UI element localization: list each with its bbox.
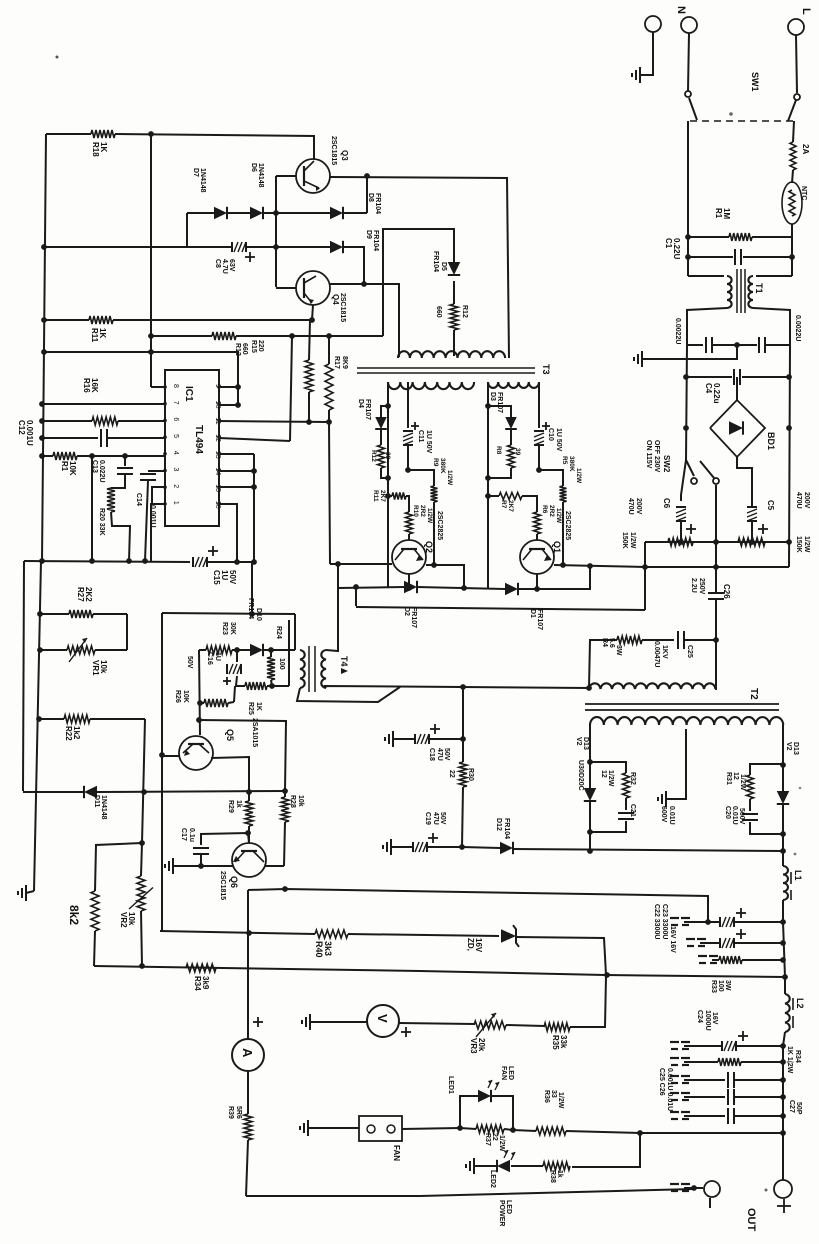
wire bbox=[199, 720, 286, 791]
wire pin14 bbox=[219, 470, 254, 472]
svg-text:8: 8 bbox=[172, 384, 179, 388]
node bbox=[780, 1043, 786, 1049]
svg-text:8K9: 8K9 bbox=[341, 356, 348, 369]
svg-text:0.01U: 0.01U bbox=[668, 806, 675, 825]
svg-text:1K: 1K bbox=[99, 142, 108, 152]
node bbox=[249, 611, 255, 617]
node bbox=[361, 281, 367, 287]
svg-text:T3: T3 bbox=[541, 364, 551, 375]
svg-text:1/2W: 1/2W bbox=[498, 1135, 505, 1152]
thermistor NTC bbox=[782, 182, 807, 224]
transistor Q2 bbox=[392, 511, 443, 574]
svg-text:C27: C27 bbox=[788, 1100, 795, 1113]
svg-text:0.1u: 0.1u bbox=[188, 828, 195, 842]
wire bbox=[518, 566, 590, 589]
capacitor C4 bbox=[686, 369, 789, 404]
node bbox=[780, 957, 788, 980]
svg-text:470U: 470U bbox=[795, 492, 802, 509]
resistor R20 bbox=[98, 488, 130, 561]
svg-text:39: 39 bbox=[514, 448, 521, 456]
svg-text:R1: R1 bbox=[60, 461, 69, 472]
resistor R6 bbox=[534, 505, 563, 540]
wire bbox=[756, 275, 792, 277]
svg-text:POWER: POWER bbox=[498, 1200, 505, 1226]
wire rail A bbox=[23, 561, 24, 791]
wire left rail bbox=[42, 134, 46, 561]
svg-text:2SC2825: 2SC2825 bbox=[564, 511, 571, 540]
svg-text:2K7: 2K7 bbox=[379, 490, 386, 502]
node bbox=[485, 403, 491, 499]
diode D9 bbox=[330, 230, 379, 253]
svg-text:TL494: TL494 bbox=[193, 425, 204, 454]
zener ZD bbox=[466, 925, 519, 953]
resistor R25 bbox=[245, 682, 267, 715]
led LED1 bbox=[447, 1066, 514, 1130]
svg-text:5.6: 5.6 bbox=[608, 638, 615, 648]
svg-text:1M: 1M bbox=[722, 208, 731, 219]
svg-text:D10: D10 bbox=[255, 608, 262, 621]
svg-text:L2: L2 bbox=[795, 998, 805, 1009]
wire bbox=[387, 382, 389, 588]
svg-text:150K: 150K bbox=[795, 536, 802, 553]
capacitor C24 bbox=[670, 1010, 783, 1051]
wire A branch bbox=[247, 890, 249, 1039]
wire bus bbox=[645, 541, 789, 543]
svg-text:2SC1815: 2SC1815 bbox=[219, 871, 226, 900]
capacitor C6 bbox=[662, 460, 696, 542]
svg-text:R34: R34 bbox=[794, 1050, 801, 1063]
terminal L bbox=[788, 8, 812, 35]
svg-text:22: 22 bbox=[491, 1133, 498, 1141]
svg-text:30K: 30K bbox=[229, 622, 236, 635]
svg-text:2: 2 bbox=[172, 484, 179, 488]
svg-text:R12: R12 bbox=[461, 305, 468, 318]
svg-text:R18: R18 bbox=[91, 142, 100, 157]
svg-text:N: N bbox=[675, 6, 687, 14]
wire T2 tap bbox=[666, 729, 686, 799]
capacitor C5 bbox=[747, 500, 775, 542]
svg-text:33: 33 bbox=[550, 1090, 557, 1098]
svg-text:R27: R27 bbox=[76, 587, 85, 602]
svg-text:FAN: FAN bbox=[500, 1066, 507, 1080]
svg-text:1N4148: 1N4148 bbox=[257, 163, 264, 188]
svg-text:C15: C15 bbox=[212, 570, 221, 585]
svg-text:FR104: FR104 bbox=[372, 230, 379, 251]
svg-text:2SC1815: 2SC1815 bbox=[339, 293, 346, 322]
svg-text:ON 115V: ON 115V bbox=[645, 440, 652, 469]
wire bbox=[150, 134, 152, 387]
bridge rectifier BD1 bbox=[710, 400, 776, 457]
resistor R7 bbox=[488, 493, 537, 513]
svg-text:FR107: FR107 bbox=[496, 392, 503, 413]
svg-text:C17: C17 bbox=[180, 828, 187, 841]
wire Q3 emitter bbox=[330, 177, 509, 358]
wire bbox=[783, 922, 785, 977]
svg-text:FR104: FR104 bbox=[374, 193, 381, 214]
svg-text:D11: D11 bbox=[93, 795, 100, 808]
wire pin16 bbox=[219, 504, 237, 562]
node bbox=[587, 829, 593, 835]
svg-text:C13: C13 bbox=[91, 460, 98, 473]
capacitor C16 bbox=[186, 650, 241, 686]
svg-text:1U 50V: 1U 50V bbox=[555, 428, 562, 452]
svg-text:R32: R32 bbox=[629, 772, 636, 785]
svg-text:1N4148: 1N4148 bbox=[100, 795, 107, 820]
svg-text:LED: LED bbox=[507, 1066, 514, 1080]
svg-text:2A: 2A bbox=[801, 144, 810, 154]
svg-text:1/2W: 1/2W bbox=[629, 532, 636, 549]
svg-text:FR107: FR107 bbox=[364, 399, 371, 420]
transformer T4 winding b bbox=[321, 650, 326, 688]
capacitor C22 bbox=[653, 904, 783, 953]
wire Q6 collector bbox=[265, 865, 284, 867]
wire bbox=[383, 229, 454, 336]
svg-text:380K: 380K bbox=[439, 458, 446, 474]
wire bbox=[737, 457, 752, 500]
capacitor C18 bbox=[385, 724, 463, 761]
svg-text:L1: L1 bbox=[793, 870, 803, 881]
svg-text:63V: 63V bbox=[228, 259, 235, 272]
svg-text:IC1: IC1 bbox=[183, 386, 194, 402]
switch SW1 pole N bbox=[685, 91, 697, 120]
svg-text:LED1: LED1 bbox=[447, 1076, 454, 1094]
wire bbox=[113, 319, 312, 321]
wire pin12 bbox=[219, 438, 290, 441]
svg-text:R12: R12 bbox=[370, 450, 377, 462]
svg-text:1U 50V: 1U 50V bbox=[425, 430, 432, 454]
node bbox=[245, 830, 251, 836]
label plus bbox=[253, 1017, 263, 1027]
svg-text:R7: R7 bbox=[500, 500, 507, 509]
transformer T1 winding a bbox=[727, 276, 732, 308]
svg-text:OFF 230V: OFF 230V bbox=[653, 440, 660, 473]
wire midpoint bbox=[337, 564, 339, 588]
wire cathode rail bbox=[462, 847, 500, 848]
svg-text:100: 100 bbox=[717, 980, 724, 992]
switch SW1 pole L bbox=[750, 72, 800, 121]
wire pin15 bbox=[219, 486, 254, 488]
wire bbox=[329, 422, 330, 564]
svg-text:0.0047U: 0.0047U bbox=[653, 641, 660, 667]
capacitor C26b bbox=[670, 1089, 783, 1105]
resistor R39 bbox=[227, 1071, 252, 1196]
terminal OUT+ bbox=[745, 1133, 792, 1232]
svg-text:10k: 10k bbox=[127, 912, 136, 926]
wire rail B bbox=[34, 561, 41, 891]
svg-text:R26: R26 bbox=[174, 690, 181, 703]
diode D6 bbox=[250, 163, 264, 219]
svg-text:1K: 1K bbox=[98, 328, 107, 338]
svg-text:R35: R35 bbox=[551, 1035, 560, 1050]
wire bbox=[688, 33, 689, 91]
svg-text:FR104: FR104 bbox=[432, 251, 439, 272]
wire bbox=[186, 213, 188, 247]
svg-text:R20 33K: R20 33K bbox=[98, 508, 105, 536]
transformer T4 core bbox=[309, 646, 349, 692]
wire bbox=[487, 382, 489, 588]
svg-text:VR2: VR2 bbox=[119, 912, 128, 928]
node bbox=[678, 539, 792, 545]
svg-text:2.2U: 2.2U bbox=[690, 578, 697, 593]
svg-text:R30: R30 bbox=[467, 768, 474, 781]
wire pin13 bbox=[219, 453, 254, 455]
svg-text:Q2: Q2 bbox=[424, 541, 434, 553]
svg-text:8k2: 8k2 bbox=[67, 905, 81, 925]
ground bbox=[658, 791, 675, 825]
wire bus bbox=[645, 566, 789, 568]
node bbox=[39, 558, 148, 564]
svg-text:V2: V2 bbox=[785, 742, 792, 751]
resistor R34b bbox=[670, 1046, 801, 1074]
svg-text:2R2: 2R2 bbox=[419, 505, 426, 517]
svg-text:BD1: BD1 bbox=[766, 432, 776, 450]
transformer T4 winding a bbox=[300, 650, 305, 688]
svg-text:R38: R38 bbox=[549, 1170, 556, 1183]
meter A bbox=[232, 1039, 264, 1071]
resistor R34a bbox=[186, 964, 216, 991]
svg-text:R10: R10 bbox=[412, 505, 419, 517]
svg-text:1/2W: 1/2W bbox=[557, 1092, 564, 1109]
svg-text:10K: 10K bbox=[182, 690, 189, 703]
diode D5 bbox=[432, 251, 460, 275]
wire C15 row bbox=[24, 561, 190, 562]
svg-text:150K: 150K bbox=[621, 532, 628, 549]
svg-text:R11: R11 bbox=[372, 490, 379, 502]
svg-text:12: 12 bbox=[732, 772, 739, 780]
svg-text:0.0022U: 0.0022U bbox=[794, 315, 801, 341]
wire bbox=[199, 650, 200, 735]
svg-text:C10: C10 bbox=[547, 428, 554, 441]
wire pin1 bbox=[151, 504, 165, 562]
svg-text:D9: D9 bbox=[365, 230, 372, 239]
svg-text:C6: C6 bbox=[662, 498, 671, 509]
node bbox=[534, 586, 540, 592]
svg-text:C12: C12 bbox=[17, 420, 26, 435]
wire Q4 base bbox=[276, 287, 296, 289]
resistor R27 bbox=[40, 587, 127, 618]
resistor R8 bbox=[495, 445, 521, 468]
resistor R36 bbox=[513, 1090, 640, 1135]
svg-text:Q4: Q4 bbox=[331, 294, 340, 305]
ground bbox=[165, 858, 173, 874]
svg-text:FR107: FR107 bbox=[410, 607, 417, 628]
node bbox=[587, 759, 786, 768]
wire to earth bbox=[642, 345, 737, 359]
resistor R16 bbox=[42, 378, 165, 425]
node bbox=[780, 1113, 786, 1136]
resistor R15 bbox=[250, 320, 313, 422]
svg-text:5: 5 bbox=[172, 434, 179, 438]
wire bottom return bbox=[246, 1189, 694, 1196]
svg-text:NTC: NTC bbox=[800, 186, 807, 200]
svg-text:C18: C18 bbox=[428, 748, 435, 761]
capacitor C11 bbox=[403, 382, 432, 470]
svg-text:D12: D12 bbox=[495, 818, 502, 831]
wire bbox=[325, 686, 589, 688]
node bbox=[198, 863, 204, 869]
wire bbox=[288, 620, 290, 686]
capacitor C2 bbox=[674, 318, 736, 353]
transformer T2 core bbox=[585, 688, 779, 710]
capacitor C25b bbox=[658, 1068, 783, 1111]
node bbox=[246, 788, 288, 795]
node bbox=[148, 333, 332, 339]
wire Q6 base bbox=[201, 833, 249, 845]
wire bbox=[782, 1046, 784, 1133]
ground bbox=[18, 885, 34, 901]
wire bbox=[142, 719, 145, 843]
wire Q2 right bbox=[426, 565, 464, 588]
svg-text:50P: 50P bbox=[795, 1102, 802, 1115]
wire N down bbox=[687, 121, 689, 276]
wire Q4 collector bbox=[330, 284, 399, 357]
snubber R31 C20 bbox=[724, 764, 783, 834]
potentiometer VR2 bbox=[119, 843, 153, 966]
wire Q1 right bbox=[554, 565, 645, 567]
svg-text:1/2W: 1/2W bbox=[446, 470, 453, 486]
capacitor C12 bbox=[17, 420, 165, 447]
node bbox=[604, 972, 610, 978]
svg-text:D5: D5 bbox=[440, 262, 447, 271]
svg-text:L: L bbox=[800, 8, 812, 15]
diode D10 bbox=[247, 598, 263, 656]
terminal OUT- bbox=[670, 1181, 720, 1208]
resistor R29 bbox=[227, 792, 253, 843]
wire Q3 base bbox=[276, 175, 296, 177]
svg-text:100: 100 bbox=[278, 658, 285, 670]
svg-text:R16: R16 bbox=[82, 378, 91, 393]
svg-text:C11: C11 bbox=[417, 430, 424, 443]
node bbox=[587, 563, 593, 569]
svg-text:660: 660 bbox=[241, 343, 248, 355]
wire bbox=[97, 791, 285, 792]
svg-text:D2: D2 bbox=[403, 607, 410, 616]
capacitor C19 bbox=[383, 812, 462, 855]
capacitor C3 bbox=[738, 315, 801, 353]
transistor Q6 bbox=[219, 843, 266, 900]
resistor R24 bbox=[267, 626, 285, 686]
svg-text:R40: R40 bbox=[314, 941, 324, 958]
svg-text:Q1: Q1 bbox=[552, 541, 562, 553]
svg-text:0.001U: 0.001U bbox=[25, 420, 34, 446]
wire rail T4 top bbox=[162, 613, 295, 614]
svg-text:D13: D13 bbox=[582, 737, 589, 750]
wire bbox=[791, 224, 793, 237]
wire bbox=[246, 246, 330, 248]
node bbox=[335, 561, 359, 590]
svg-text:1/2W: 1/2W bbox=[555, 508, 562, 524]
transformer T1 core bbox=[737, 269, 764, 313]
svg-text:16V: 16V bbox=[474, 938, 483, 953]
wire C8 row bbox=[44, 246, 232, 248]
svg-text:1K: 1K bbox=[255, 702, 262, 711]
wire pin2 bbox=[152, 487, 165, 505]
svg-text:C26: C26 bbox=[722, 584, 731, 599]
transformer T2 secondary bbox=[590, 717, 783, 725]
wire bbox=[326, 564, 338, 651]
svg-text:LED: LED bbox=[505, 1200, 512, 1214]
wire bbox=[251, 562, 253, 614]
node bbox=[159, 752, 165, 758]
wire bottom sense bus bbox=[94, 966, 785, 977]
resistor R1 bbox=[688, 208, 792, 241]
resistor R22 bbox=[39, 715, 145, 741]
svg-text:C14: C14 bbox=[135, 493, 142, 506]
diode D13b bbox=[777, 742, 799, 851]
svg-text:1/2W: 1/2W bbox=[575, 468, 582, 484]
svg-text:0.22u: 0.22u bbox=[712, 383, 721, 404]
svg-text:20k: 20k bbox=[477, 1038, 486, 1052]
svg-text:C8: C8 bbox=[214, 259, 221, 268]
svg-text:OUT: OUT bbox=[745, 1208, 757, 1232]
svg-text:D3: D3 bbox=[489, 392, 496, 401]
resistor R9 bbox=[408, 458, 453, 565]
resistor R40 bbox=[160, 930, 499, 958]
node bbox=[273, 210, 279, 250]
wire Q2 emitter bbox=[408, 574, 410, 588]
node bbox=[251, 468, 257, 490]
wire left vert bbox=[161, 613, 163, 931]
node bbox=[385, 403, 391, 499]
resistor R17 bbox=[325, 336, 348, 422]
node bbox=[780, 919, 786, 925]
svg-text:R5: R5 bbox=[561, 456, 568, 465]
fan connector bbox=[300, 1116, 402, 1161]
node bbox=[683, 374, 792, 431]
node bbox=[637, 1130, 643, 1136]
wire bbox=[715, 640, 717, 690]
svg-text:16V: 16V bbox=[711, 1012, 718, 1025]
wire Q4 emitter bbox=[312, 305, 313, 320]
wire bbox=[402, 1128, 460, 1129]
svg-text:12: 12 bbox=[600, 770, 607, 778]
wire bbox=[488, 406, 511, 417]
svg-text:220: 220 bbox=[257, 340, 264, 352]
svg-text:C16: C16 bbox=[206, 652, 213, 665]
resistor R2 bbox=[738, 536, 810, 553]
wire bbox=[510, 429, 512, 445]
node bbox=[587, 831, 786, 854]
wire Q5 collector bbox=[211, 757, 249, 792]
node bbox=[734, 342, 740, 348]
svg-text:FR107: FR107 bbox=[536, 609, 543, 630]
svg-text:T1: T1 bbox=[754, 283, 764, 294]
svg-text:1: 1 bbox=[172, 501, 179, 505]
resistor R23 bbox=[206, 622, 236, 654]
capacitor C17 bbox=[180, 828, 209, 866]
wire bbox=[644, 542, 646, 610]
svg-text:VR3: VR3 bbox=[469, 1038, 478, 1054]
svg-text:1U: 1U bbox=[220, 570, 229, 580]
svg-text:2R2: 2R2 bbox=[548, 505, 555, 517]
svg-text:1/2W: 1/2W bbox=[607, 770, 614, 787]
svg-text:4.7U: 4.7U bbox=[221, 259, 228, 274]
svg-text:2SA1015: 2SA1015 bbox=[251, 718, 258, 747]
svg-text:C25: C25 bbox=[686, 645, 693, 658]
svg-text:R37: R37 bbox=[484, 1133, 491, 1146]
node bbox=[41, 244, 315, 323]
svg-text:C24: C24 bbox=[696, 1010, 703, 1023]
wire bbox=[688, 275, 724, 277]
wire bbox=[381, 406, 388, 417]
wire bbox=[417, 587, 505, 589]
svg-text:2K2: 2K2 bbox=[84, 587, 93, 602]
svg-text:600V: 600V bbox=[660, 806, 667, 823]
svg-text:R15: R15 bbox=[250, 340, 257, 353]
wire bbox=[95, 843, 142, 891]
svg-text:A: A bbox=[240, 1048, 255, 1058]
resistor R35 bbox=[506, 976, 606, 1050]
